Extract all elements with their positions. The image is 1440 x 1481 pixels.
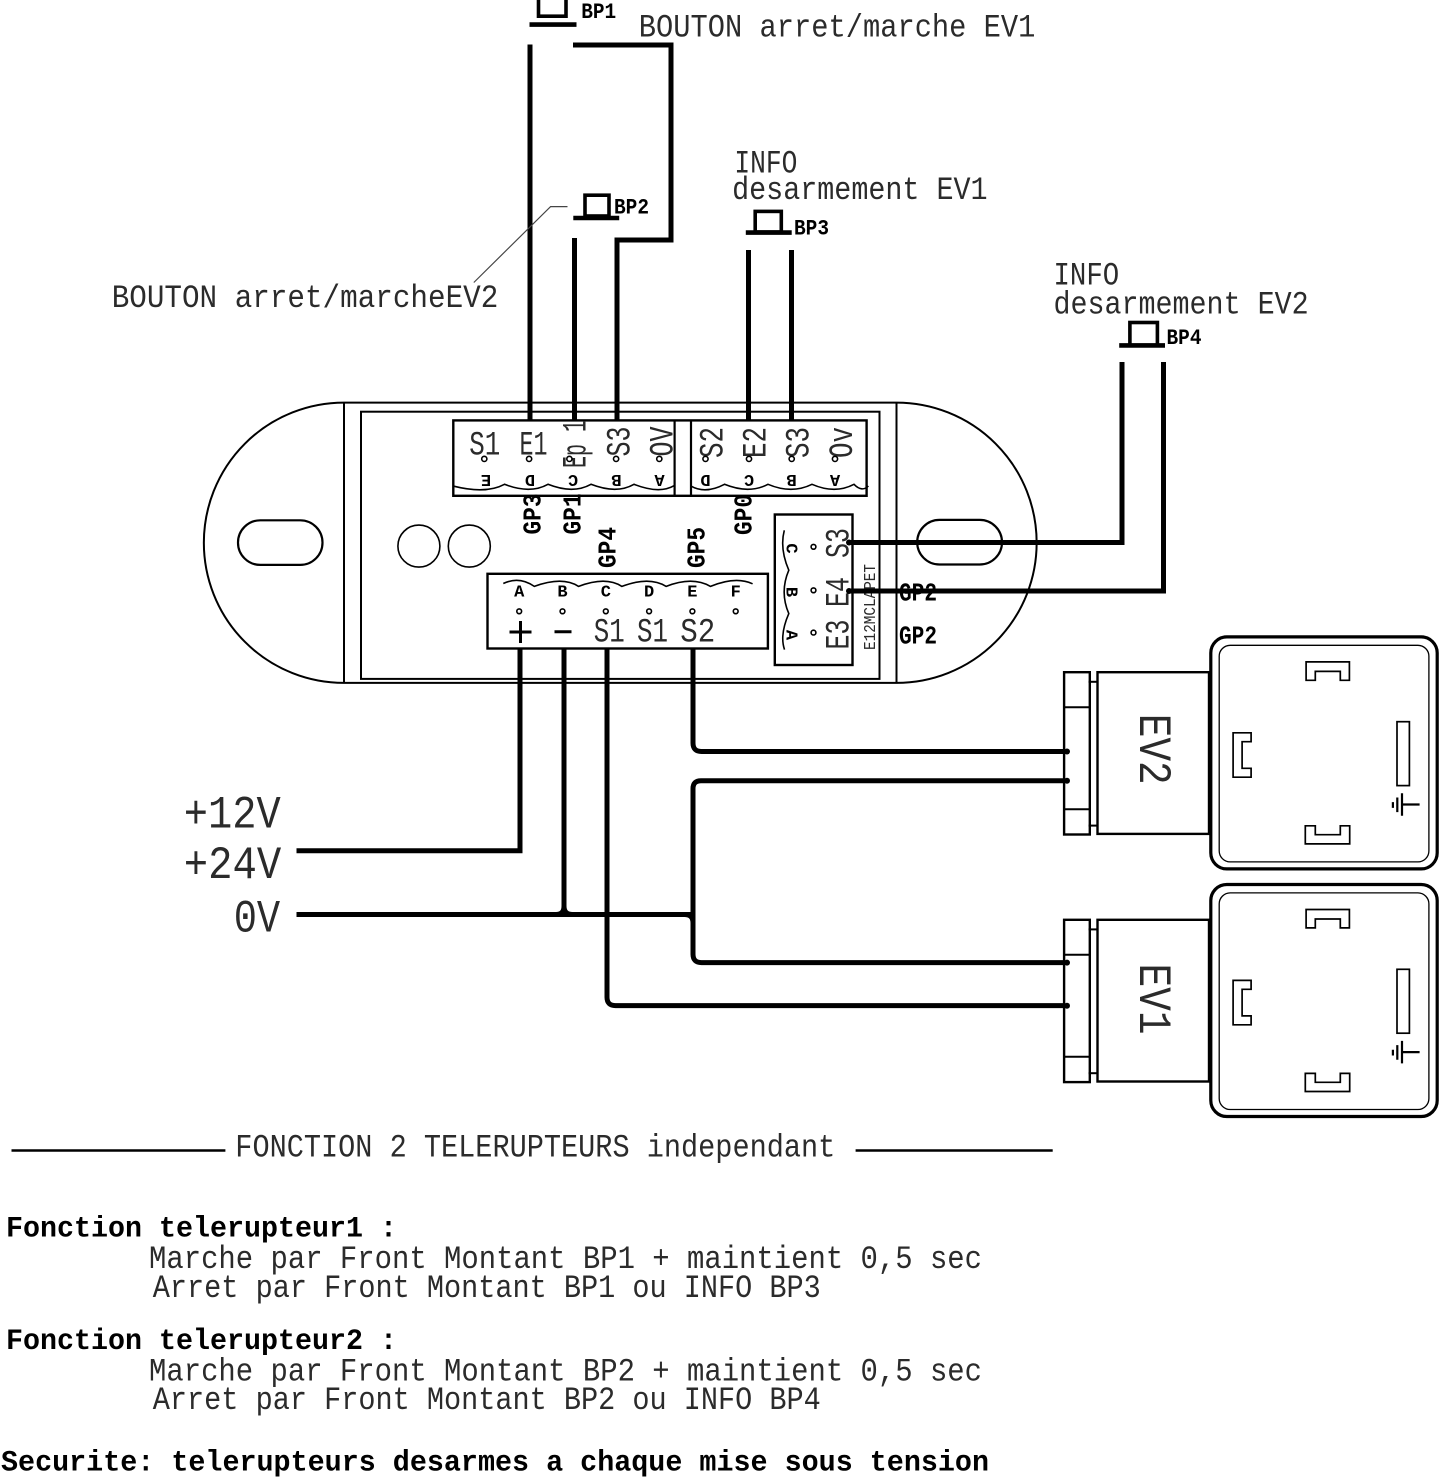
svg-text:EV2: EV2 bbox=[1126, 714, 1178, 785]
svg-text:D: D bbox=[700, 469, 710, 488]
svg-text:S3: S3 bbox=[782, 427, 820, 458]
svg-text:BP3: BP3 bbox=[794, 216, 829, 241]
svg-text:desarmement EV1: desarmement EV1 bbox=[732, 172, 988, 209]
svg-text:B: B bbox=[787, 469, 797, 488]
svg-text:C: C bbox=[601, 584, 611, 603]
svg-text:BP2: BP2 bbox=[614, 196, 649, 221]
svg-text:S1: S1 bbox=[637, 615, 668, 653]
svg-text:GP5: GP5 bbox=[682, 527, 712, 568]
svg-text:A: A bbox=[654, 469, 665, 488]
svg-text:OV: OV bbox=[646, 426, 684, 456]
svg-text:E1: E1 bbox=[520, 428, 548, 466]
svg-text:E3: E3 bbox=[822, 620, 860, 650]
svg-text:desarmement EV2: desarmement EV2 bbox=[1054, 287, 1309, 324]
svg-text:E: E bbox=[481, 469, 491, 488]
svg-text:A: A bbox=[829, 469, 840, 488]
svg-text:0V: 0V bbox=[234, 894, 281, 946]
svg-text:C: C bbox=[780, 543, 799, 553]
svg-text:E: E bbox=[687, 584, 697, 603]
svg-text:C: C bbox=[568, 469, 578, 488]
svg-text:C: C bbox=[744, 469, 754, 488]
svg-text:BP4: BP4 bbox=[1167, 326, 1202, 351]
svg-text:GP1: GP1 bbox=[559, 494, 589, 535]
svg-text:S2: S2 bbox=[696, 427, 734, 458]
svg-text:B: B bbox=[557, 584, 567, 603]
svg-text:S1: S1 bbox=[594, 615, 625, 653]
svg-text:A: A bbox=[780, 630, 799, 641]
svg-text:GP0: GP0 bbox=[730, 494, 760, 535]
svg-text:E2: E2 bbox=[739, 427, 777, 458]
svg-text:EV1: EV1 bbox=[1126, 964, 1178, 1035]
svg-text:+24V: +24V bbox=[184, 840, 282, 892]
svg-text:+12V: +12V bbox=[184, 790, 281, 842]
svg-text:BOUTON arret/marche EV1: BOUTON arret/marche EV1 bbox=[639, 10, 1036, 47]
svg-text:A: A bbox=[514, 584, 525, 603]
svg-text:BOUTON arret/marcheEV2: BOUTON arret/marcheEV2 bbox=[112, 280, 499, 317]
svg-text:B: B bbox=[611, 469, 621, 488]
svg-text:S1: S1 bbox=[469, 428, 500, 466]
svg-text:D: D bbox=[525, 469, 535, 488]
svg-text:Arret par Front Montant BP2 ou: Arret par Front Montant BP2 ou INFO BP4 bbox=[153, 1382, 821, 1419]
svg-text:F: F bbox=[731, 584, 741, 603]
svg-text:FONCTION 2 TELERUPTEURS indepe: FONCTION 2 TELERUPTEURS independant bbox=[235, 1130, 835, 1167]
svg-text:Ep 1: Ep 1 bbox=[559, 420, 597, 468]
svg-text:Arret par Front Montant BP1 ou: Arret par Front Montant BP1 ou INFO BP3 bbox=[153, 1270, 821, 1307]
svg-text:GP3: GP3 bbox=[518, 494, 548, 535]
svg-text:Securite: telerupteurs desarme: Securite: telerupteurs desarmes a chaque… bbox=[1, 1446, 989, 1480]
svg-text:E12MCLAPET: E12MCLAPET bbox=[862, 564, 881, 650]
svg-text:GP2: GP2 bbox=[899, 622, 937, 652]
svg-text:D: D bbox=[644, 584, 654, 603]
svg-text:S3: S3 bbox=[603, 427, 641, 457]
svg-text:GP4: GP4 bbox=[593, 527, 623, 568]
svg-text:S2: S2 bbox=[680, 615, 715, 653]
svg-text:BP1: BP1 bbox=[581, 0, 616, 25]
svg-text:Ov: Ov bbox=[825, 427, 863, 458]
svg-text:B: B bbox=[780, 587, 799, 597]
